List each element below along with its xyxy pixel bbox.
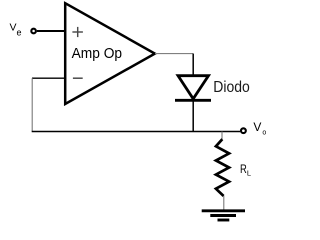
wire diode anode vertical bbox=[192, 54, 194, 76]
wire op-amp output horizontal bbox=[155, 53, 193, 55]
node Vo label bbox=[253, 120, 266, 137]
ground bbox=[202, 211, 245, 220]
wire bottom horizontal bbox=[32, 131, 241, 133]
svg-text:Amp Op: Amp Op bbox=[72, 45, 123, 62]
svg-text:V: V bbox=[10, 22, 17, 34]
pin + (non-inverting) bbox=[72, 27, 83, 37]
op-amp U1 bbox=[65, 3, 155, 104]
wire non-inverting input bbox=[37, 30, 65, 32]
node Ve label bbox=[10, 22, 22, 38]
terminal Vo bbox=[241, 128, 246, 133]
svg-text:o: o bbox=[262, 130, 266, 137]
pin - (inverting) bbox=[73, 77, 83, 79]
svg-text:L: L bbox=[247, 169, 251, 178]
svg-text:Diodo: Diodo bbox=[213, 79, 250, 96]
svg-text:e: e bbox=[17, 27, 22, 37]
wire diode cathode vertical bbox=[192, 100, 194, 131]
svg-text:V: V bbox=[253, 120, 261, 134]
diode D1 bbox=[175, 76, 211, 101]
wire resistor top stub bbox=[221, 132, 223, 140]
wire inverting input bbox=[32, 77, 65, 79]
terminal Ve bbox=[31, 29, 36, 34]
wire feedback vertical bbox=[31, 78, 33, 131]
wire resistor bottom stub bbox=[223, 196, 225, 211]
resistor RL bbox=[216, 139, 229, 196]
label RL bbox=[240, 162, 251, 177]
